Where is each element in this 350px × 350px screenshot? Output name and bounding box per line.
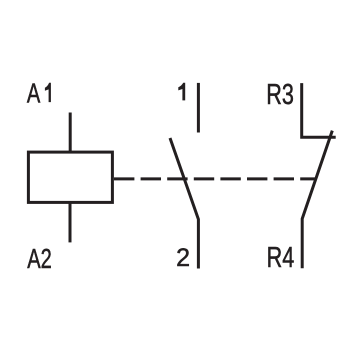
svg-text:R3: R3	[266, 79, 294, 111]
svg-text:A2: A2	[27, 244, 52, 275]
svg-text:A: A	[27, 79, 40, 110]
svg-text:R4: R4	[267, 242, 295, 274]
svg-text:2: 2	[176, 244, 190, 272]
